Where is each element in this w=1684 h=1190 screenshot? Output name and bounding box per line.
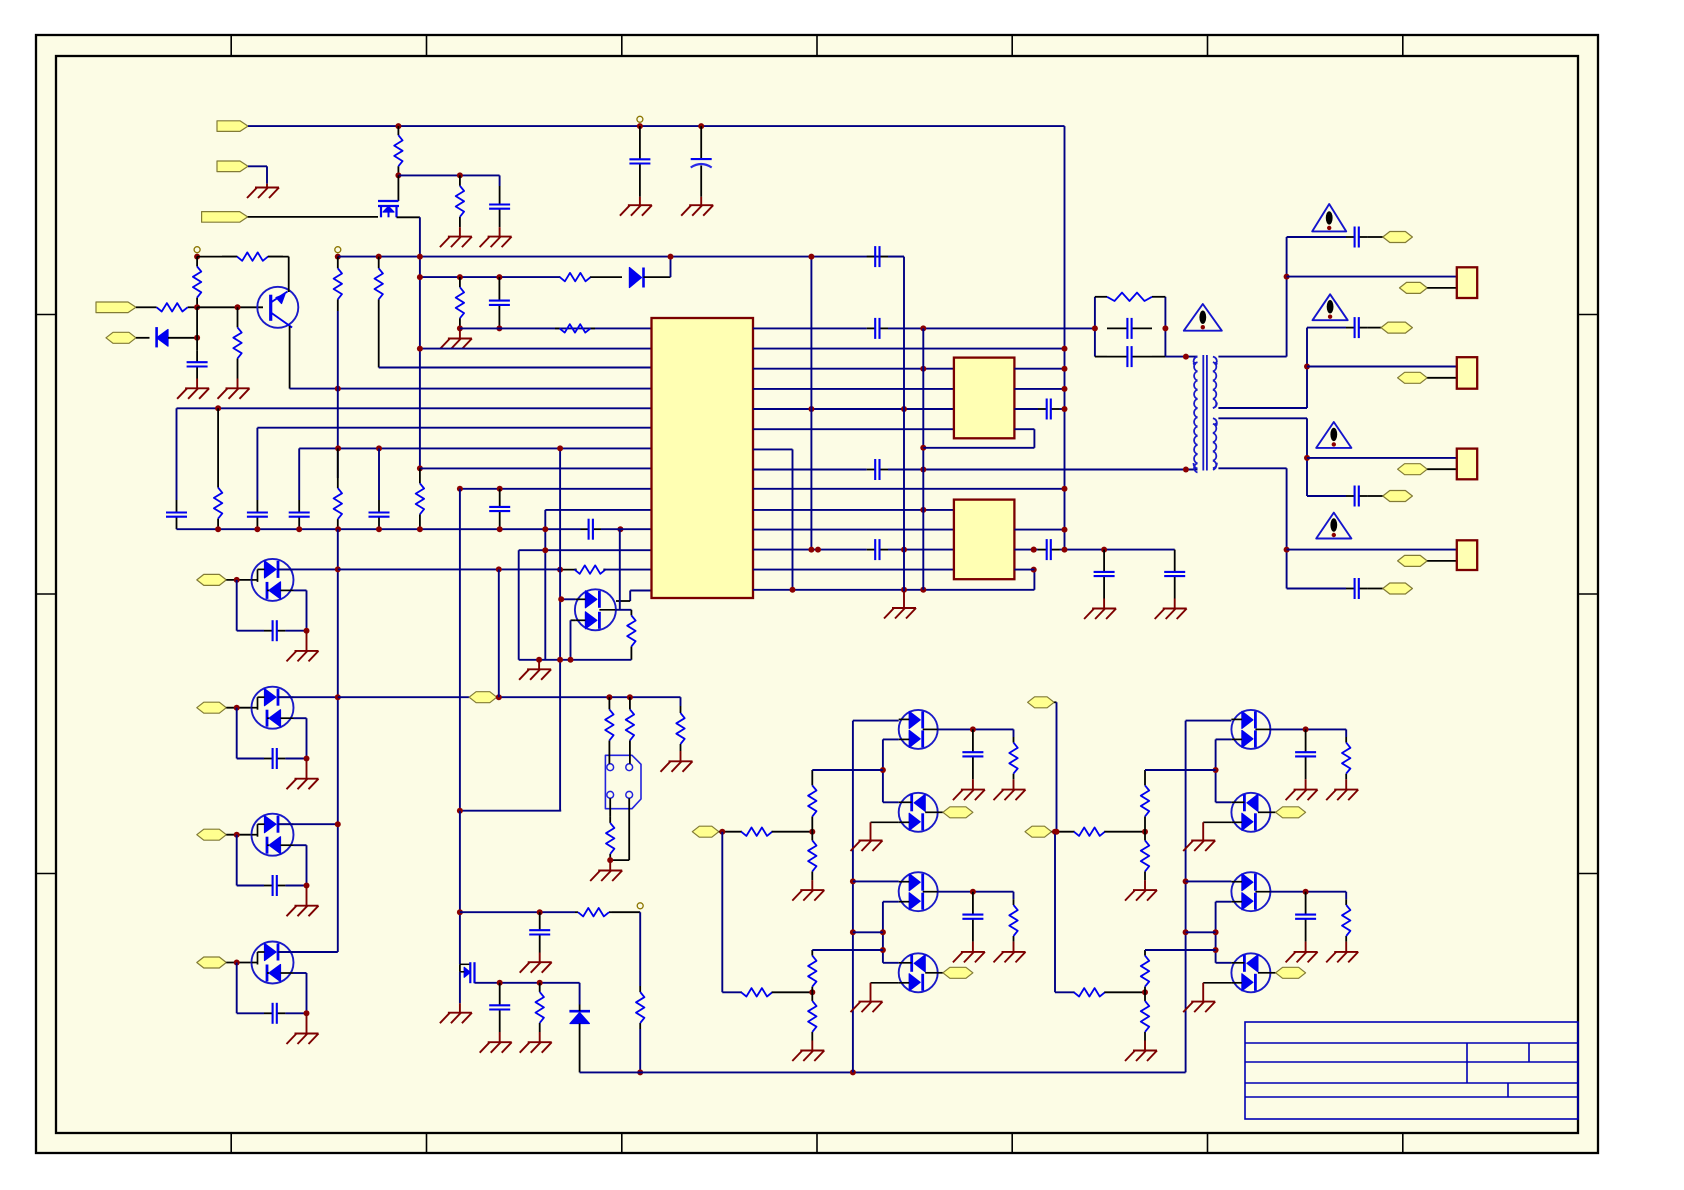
capacitor C vcc2 (539, 912, 541, 930)
ground (459, 1003, 461, 1013)
resistor R ldrop2 (217, 408, 219, 477)
wire emitter up (288, 257, 290, 292)
capacitor C ldrop1 (176, 500, 178, 513)
junction (417, 274, 423, 280)
ground (1144, 880, 1146, 890)
junction (1183, 878, 1189, 884)
resistor R m1 (1013, 729, 1015, 737)
wire vertical drain bus (419, 217, 421, 468)
ground (499, 227, 501, 236)
ground (306, 631, 308, 651)
junction (1062, 486, 1068, 492)
ground (1013, 942, 1015, 952)
wire (226, 834, 251, 836)
wire g3 to connector (1307, 457, 1457, 459)
resistor R div up (1144, 770, 1146, 785)
capacitor C m3 (1305, 892, 1307, 915)
wire m2 bottom to gnd (1203, 821, 1231, 823)
wire tvs top (278, 823, 338, 825)
junction (1284, 547, 1290, 553)
junction (542, 547, 548, 553)
mosfet M4 (1231, 953, 1270, 992)
port g1 ac (1383, 232, 1413, 243)
junction (457, 909, 463, 915)
port g4 ac (1383, 583, 1413, 594)
junction (1183, 354, 1189, 360)
ground (859, 840, 883, 842)
resistor R jp (609, 817, 611, 823)
wire (226, 707, 251, 709)
mosfet M3 (1231, 872, 1270, 911)
wire U2 out row4 (1014, 388, 1064, 390)
wire tvs top (278, 696, 338, 698)
junction (234, 577, 240, 583)
capacitor C series row12 (867, 549, 876, 551)
resistor R row13 (575, 569, 577, 571)
junction (395, 123, 401, 129)
wire cap row (236, 835, 238, 886)
warning triangle g3 (1316, 422, 1351, 448)
junction (920, 507, 926, 513)
wire (1055, 991, 1074, 993)
resistor R tvsu (630, 610, 632, 616)
wire (248, 165, 267, 167)
wire tvs bottom (294, 717, 307, 719)
junction (457, 274, 463, 280)
wire row1 right (753, 327, 867, 329)
border zone ticks (230, 35, 232, 56)
junction (901, 547, 907, 553)
junction (457, 172, 463, 178)
ground (811, 1041, 813, 1051)
wire base (136, 306, 147, 308)
wire tvs bus (337, 529, 339, 952)
port tvs 2 (197, 702, 227, 713)
junction (815, 547, 821, 553)
wire group3 riser (1306, 418, 1308, 496)
warning triangle xfmr (1184, 304, 1222, 331)
wire (670, 257, 672, 278)
tvs circle 3 (252, 814, 294, 856)
wire (722, 991, 741, 993)
junction (304, 628, 310, 634)
wire jp bottom left (609, 798, 611, 816)
junction (417, 465, 423, 471)
wire jp bottom right (628, 798, 630, 860)
resistor R 912 (575, 911, 578, 913)
junction (537, 909, 543, 915)
capacitor C q3a (499, 983, 501, 1006)
warning triangle g1 (1312, 204, 1346, 231)
transformer T1 secondary lower (1213, 418, 1217, 424)
wire m3 gate drop (882, 902, 884, 963)
capacitor C U2 out (1038, 408, 1047, 410)
transformer core (1202, 355, 1204, 471)
wire row6 (257, 427, 651, 429)
wire row1 (460, 327, 652, 329)
mosfet M2 (1231, 793, 1270, 832)
wire top rail drop (1064, 126, 1066, 549)
wire rail A (197, 256, 237, 258)
capacitor C bulk polarized (700, 126, 702, 159)
wire m2 top (1216, 801, 1232, 803)
junction (1142, 989, 1148, 995)
capacitor C ldrop3 (256, 500, 258, 513)
ground (700, 197, 702, 205)
wire U3 loop (1033, 570, 1035, 590)
junction (809, 829, 815, 835)
wire m2 top (883, 801, 899, 803)
ground (538, 660, 540, 670)
wire aux vertical (498, 569, 500, 697)
wire U2 out row5 (1014, 408, 1038, 410)
wire link (1186, 931, 1216, 933)
junction (1284, 274, 1290, 280)
wire m1 right (938, 728, 1014, 730)
connector J4 (1457, 540, 1477, 570)
wire node row (398, 174, 499, 176)
wire div top (812, 769, 883, 771)
port aux mid (469, 692, 497, 703)
resistor R div2 up (1144, 950, 1146, 956)
junction (496, 566, 502, 572)
snubber network (1094, 297, 1096, 357)
resistor R base series (147, 306, 157, 308)
wire row7 right (753, 448, 793, 450)
wire sense vertical (559, 448, 561, 810)
capacitor C tvs 3 (264, 885, 273, 887)
port tvs 1 (197, 574, 227, 585)
resistor R in upper (740, 831, 743, 833)
junction (335, 445, 341, 451)
connector J2 (1457, 357, 1477, 389)
wire m3 top (853, 880, 899, 882)
junction (920, 445, 926, 451)
wire tvsu bottom (571, 619, 576, 621)
capacitor C hv2 (1174, 550, 1176, 572)
resistor R gate pulldown (459, 175, 461, 185)
junction (376, 445, 382, 451)
wire m1 gate (1216, 738, 1232, 740)
wire m4 top (1216, 962, 1232, 964)
wire g2 to connector (1307, 366, 1457, 368)
capacitor C g3 (1346, 495, 1355, 497)
junction (850, 1069, 856, 1075)
junction (970, 889, 976, 895)
wire (226, 962, 251, 964)
wire rail B (338, 256, 904, 258)
resistor R aux pulldown (680, 697, 682, 706)
junction (457, 808, 463, 814)
junction (497, 980, 503, 986)
wire tvs top (278, 568, 338, 570)
capacitor C ldrop4 (298, 500, 300, 513)
wire m4 bottom to gnd (1203, 982, 1231, 984)
wire row14 right (753, 589, 1034, 591)
capacitor C m1 (972, 729, 974, 752)
transformer T1 secondary upper (1213, 357, 1217, 363)
ground (859, 1001, 883, 1003)
wire snub (888, 256, 904, 258)
wire (1367, 236, 1382, 238)
ground (539, 1032, 541, 1042)
wire to diode (579, 983, 581, 1005)
wire (285, 758, 306, 760)
resistor R m3 (1013, 892, 1015, 900)
wire jp left pin (608, 753, 610, 764)
junction (557, 445, 563, 451)
resistor R q3b (539, 983, 541, 992)
wire row7 (299, 447, 651, 449)
wire tvsu up (619, 529, 621, 610)
polarity dot (1214, 423, 1217, 426)
port g2 ac (1381, 322, 1412, 333)
rail bottom tvsu (519, 659, 632, 661)
wire sec top (1218, 356, 1286, 358)
ground (609, 860, 611, 870)
mosfet Q3 (459, 964, 461, 972)
wire gate (248, 216, 378, 218)
junction (920, 325, 926, 331)
diode D rect (569, 1010, 590, 1013)
resistor R div2 down (811, 992, 813, 1001)
junction (1052, 829, 1058, 835)
wire row2 (420, 348, 652, 350)
wire row11 rail (177, 528, 581, 530)
wire mid bus 811 (810, 257, 812, 550)
port m4 (938, 972, 943, 974)
ground (306, 1013, 308, 1033)
wire U3 out row11 (1014, 529, 1064, 531)
wire group1 cap row (1287, 236, 1346, 238)
open circle node B (335, 247, 341, 253)
wire U3 out row13 (1014, 569, 1034, 571)
junction (497, 486, 503, 492)
resistor R div2 up (811, 950, 813, 956)
ground (1305, 942, 1307, 952)
port m2 (1270, 811, 1275, 813)
capacitor C U3 out (1038, 549, 1047, 551)
wire (719, 831, 742, 833)
capacitor C tvs 2 (264, 758, 273, 760)
resistor R series (559, 276, 562, 278)
wire row5 (177, 407, 652, 409)
wire row13 tail (560, 569, 577, 571)
resistor R div down (811, 832, 813, 841)
tvs circle U (575, 589, 616, 630)
mosfet M1 (1231, 710, 1270, 749)
junction (496, 325, 502, 331)
wire (497, 696, 681, 698)
wire row9 (460, 488, 652, 490)
junction (880, 767, 886, 773)
wire row14 to TVS (630, 590, 651, 592)
wire cap row (236, 580, 238, 631)
wire fet bus vertical (852, 721, 854, 1073)
resistor R conn b (629, 697, 631, 709)
junction (215, 405, 221, 411)
port g3 out (1398, 464, 1428, 475)
wire m1 gate (883, 738, 899, 740)
junction (637, 123, 643, 129)
junction (194, 335, 200, 341)
port g4 out (1398, 555, 1428, 566)
capacitor C hv1 (1103, 550, 1105, 572)
wire tvs top (278, 951, 338, 953)
resistor R ldrop5 (337, 448, 339, 478)
mosfet M2 (899, 793, 938, 832)
junction (335, 566, 341, 572)
port g2 out (1398, 372, 1428, 383)
wire (285, 885, 306, 887)
capacitor C tvs 4 (264, 1012, 273, 1014)
wire row5 drop (176, 408, 178, 500)
junction (719, 829, 725, 835)
wire m3 gate (1216, 901, 1232, 903)
capacitor C g4 (1346, 588, 1355, 590)
ground (1174, 599, 1176, 609)
wire row8 to transformer (888, 469, 1198, 471)
wire row6 drop (256, 428, 258, 500)
ground (237, 379, 239, 389)
transformer T1 primary (1194, 357, 1198, 363)
capacitor C filter (639, 126, 641, 159)
wire m3 gate drop (1215, 902, 1217, 963)
port drv aux right (1028, 697, 1055, 708)
port input signal (96, 302, 136, 313)
wire tvs1 row cont (338, 568, 560, 570)
wire row2 right (753, 348, 1065, 350)
junction (920, 467, 926, 473)
wire aux row 810 (460, 810, 560, 812)
ground (811, 880, 813, 890)
wire riser 640 (639, 912, 641, 986)
wire m3 right (938, 891, 1014, 893)
junction (304, 883, 310, 889)
wire group2 riser (1306, 328, 1308, 408)
resistor R ldrop7 (419, 468, 421, 483)
wire (1104, 831, 1145, 833)
mosfet M4 (899, 953, 938, 992)
wire m3 gate (883, 901, 899, 903)
wire group1 riser (1286, 237, 1288, 357)
connector JP 2x2 (605, 755, 641, 808)
junction (1092, 325, 1098, 331)
wire U2 loop (923, 447, 1034, 449)
wire row12 right (753, 549, 867, 551)
resistor R top (397, 126, 399, 135)
wire m4 bottom to gnd (871, 982, 899, 984)
resistor R pullup (222, 256, 237, 258)
junction (970, 726, 976, 732)
junction (536, 657, 542, 663)
junction (194, 254, 200, 260)
wire m3 top (1186, 880, 1232, 882)
resistor R 640 (639, 986, 641, 992)
wire lower feed (721, 832, 723, 993)
wire cap row (236, 708, 238, 759)
ground (1013, 779, 1015, 789)
mosfet M1 (899, 710, 938, 749)
wire lower feed (1054, 832, 1056, 993)
capacitor C snubber bottom (1107, 356, 1127, 358)
ground (1305, 779, 1307, 789)
resistor R base top (196, 257, 198, 267)
junction (234, 705, 240, 711)
wire group4 riser (1286, 468, 1288, 588)
resistor R div2 down (1144, 992, 1146, 1001)
ground branch (903, 590, 905, 608)
junction (1062, 346, 1068, 352)
tvs circle 4 (252, 942, 294, 984)
resistor R bus upper (337, 257, 339, 269)
ground (539, 953, 541, 963)
wire m1 top (853, 720, 899, 722)
wire bus 923 (922, 328, 924, 589)
wire row6 right (753, 428, 954, 430)
resistor R snubber (1107, 293, 1152, 301)
wire row7 drop (298, 448, 300, 500)
tvs circle 2 (252, 687, 294, 729)
junction (457, 325, 463, 331)
junction (417, 254, 423, 260)
port g1 out (1400, 282, 1428, 293)
wire tvsu mid (616, 609, 632, 611)
wire sec mid1 (1218, 407, 1307, 409)
junction (1062, 547, 1068, 553)
capacitor C ldrop8 (499, 489, 501, 507)
wire group3 cap row (1307, 495, 1346, 497)
wire row8 right (753, 469, 867, 471)
wire div2 top (1145, 949, 1216, 951)
wire (285, 1012, 306, 1014)
wire top rail (248, 125, 1065, 127)
wire row12 (519, 549, 652, 551)
wire cap row (236, 963, 238, 1014)
junction (809, 989, 815, 995)
wire m1 right (1270, 728, 1346, 730)
port tvs 3 (197, 829, 227, 840)
junction (850, 878, 856, 884)
ground (499, 1032, 501, 1042)
junction (417, 346, 423, 352)
wire drain sense drop (459, 489, 461, 811)
wire sec bottom (1218, 467, 1286, 469)
junction (1303, 726, 1309, 732)
title block (1245, 1022, 1578, 1119)
junction dots on rail (215, 526, 221, 532)
warning triangle g4 (1316, 513, 1351, 539)
wire row1 right b (888, 327, 1095, 329)
capacitor C tvs 1 (264, 630, 273, 632)
polarity dot (1193, 362, 1196, 365)
wire U2 out row6 (1014, 428, 1034, 430)
resistor R to row1 (459, 277, 461, 287)
ground (1191, 1001, 1215, 1003)
transistor Q2 PNP (257, 287, 298, 328)
mosfet Q1 (397, 175, 399, 201)
junction (698, 123, 704, 129)
wire row8 (420, 467, 652, 469)
capacitor C coupling (498, 277, 500, 301)
wire (1060, 408, 1065, 410)
capacitor C series snub (867, 256, 876, 258)
junction (194, 304, 200, 310)
junction (304, 756, 310, 762)
capacitor C m1 (1305, 729, 1307, 752)
wire m1 top (1186, 720, 1232, 722)
wire row9 right (753, 488, 1065, 490)
